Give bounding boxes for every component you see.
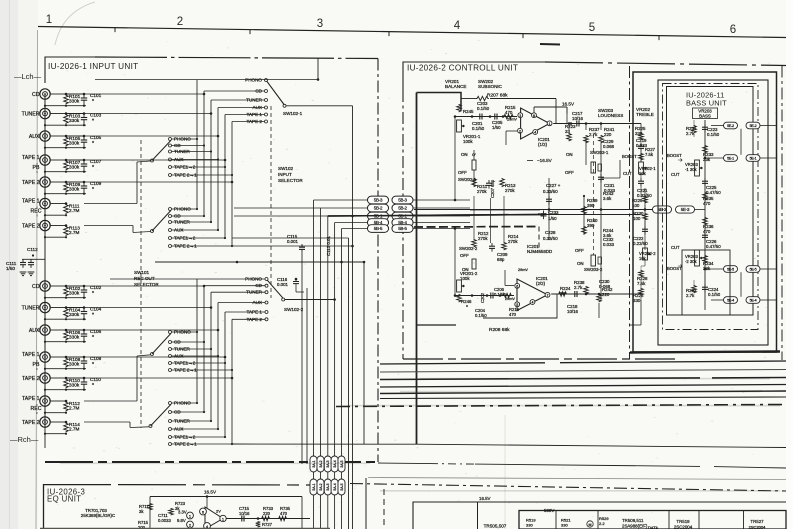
svg-text:SELECTOR: SELECTOR bbox=[278, 178, 303, 183]
svg-text:68p: 68p bbox=[497, 257, 505, 262]
svg-text:5E-2: 5E-2 bbox=[750, 124, 757, 128]
ruler tick bbox=[249, 30, 251, 35]
wire TAPE1 REC jack to SW101-1 bbox=[84, 203, 137, 205]
svg-text:0.001: 0.001 bbox=[287, 239, 299, 244]
svg-text:R207 68k: R207 68k bbox=[487, 93, 508, 99]
wire upper opamp minus input bbox=[506, 130, 517, 132]
svg-text:IU-2026-2 CONTROLL UNIT: IU-2026-2 CONTROLL UNIT bbox=[407, 64, 518, 73]
wire R226 bottom to bus bbox=[640, 300, 642, 325]
stray dark dash top right bbox=[540, 43, 560, 46]
wire 5B-2 bus bbox=[470, 209, 540, 211]
svg-text:0.1/50: 0.1/50 bbox=[708, 292, 721, 297]
svg-text:BASS: BASS bbox=[699, 113, 711, 118]
svg-text:5A-5: 5A-5 bbox=[340, 483, 344, 490]
svg-text:SW203-2: SW203-2 bbox=[584, 267, 603, 272]
ground return line bbox=[45, 147, 86, 149]
table divider 4 bbox=[698, 511, 700, 529]
svg-text:330: 330 bbox=[633, 298, 641, 303]
wire SW203-2 column bbox=[600, 303, 602, 318]
wire 5B-4 into controll unit bbox=[414, 222, 471, 224]
switch SW101-4 blade bbox=[151, 405, 171, 427]
svg-text:DATA: DATA bbox=[648, 525, 658, 529]
ground return line bbox=[45, 105, 86, 107]
resistor R105 330k bbox=[64, 137, 69, 147]
wire C227 column bbox=[548, 178, 550, 240]
svg-text:CUT: CUT bbox=[671, 245, 680, 250]
svg-text:BOOST: BOOST bbox=[667, 266, 682, 271]
transistor TR701 circle bbox=[187, 512, 194, 519]
wire SW101-4 AUX row bbox=[172, 428, 219, 430]
svg-text:TUNER: TUNER bbox=[22, 306, 40, 312]
connector 5B-5 input side bbox=[368, 225, 389, 233]
wire TAPE2 REC jack to SW101-2 bbox=[84, 225, 133, 227]
svg-text:*: * bbox=[92, 141, 94, 147]
svg-text:2.7M: 2.7M bbox=[69, 208, 80, 213]
svg-text:5: 5 bbox=[516, 303, 518, 307]
connector stack row 2 bbox=[310, 479, 317, 495]
svg-text:TR509,511: TR509,511 bbox=[622, 518, 644, 523]
resistor R113 2.7M bbox=[64, 226, 69, 236]
bass outer box bottom dark edge bbox=[630, 352, 780, 353]
svg-text:5A-4: 5A-4 bbox=[333, 483, 337, 490]
wire SW101-3 TAPE1→2 row bbox=[172, 362, 226, 364]
svg-text:2.7M: 2.7M bbox=[69, 230, 80, 235]
svg-text:PHONO: PHONO bbox=[245, 78, 262, 83]
svg-text:TAPE 1: TAPE 1 bbox=[22, 396, 40, 402]
wire R242 top bbox=[598, 303, 600, 318]
svg-text:5A-1: 5A-1 bbox=[312, 483, 316, 490]
resistor R108 330k bbox=[64, 358, 69, 368]
svg-text:330k: 330k bbox=[69, 164, 80, 169]
ruler line bbox=[38, 27, 786, 38]
svg-text:NJM4558DD: NJM4558DD bbox=[527, 249, 552, 254]
svg-text:ON: ON bbox=[566, 152, 573, 157]
svg-text:3.3V: 3.3V bbox=[178, 510, 187, 515]
svg-text:C233: C233 bbox=[548, 210, 559, 215]
ground return line bbox=[45, 297, 86, 299]
switch mechanical link SW102 bbox=[270, 106, 272, 298]
svg-text:BOOST: BOOST bbox=[622, 154, 637, 159]
svg-text:10k: 10k bbox=[639, 256, 647, 261]
wire R211 column bbox=[473, 196, 475, 239]
wire from jack TAPE 2 bbox=[50, 421, 66, 423]
svg-text:C227 +: C227 + bbox=[546, 183, 561, 188]
wire vertical source bus R2 bbox=[203, 286, 205, 412]
svg-text:*: * bbox=[538, 213, 540, 219]
svg-text:29mV: 29mV bbox=[518, 268, 528, 272]
svg-text:100: 100 bbox=[633, 216, 641, 221]
resistor R213 270k bbox=[500, 178, 505, 187]
wire vertical source bus L1 bbox=[196, 80, 198, 209]
wire SW101-2 TAPE 2→1 row bbox=[172, 245, 233, 247]
svg-text:ON: ON bbox=[577, 261, 584, 266]
svg-text:330k: 330k bbox=[69, 186, 80, 191]
svg-text:5B-5: 5B-5 bbox=[398, 226, 407, 231]
resistor R107 330k bbox=[64, 161, 69, 171]
wire vertical source bus R1 bbox=[196, 279, 198, 403]
bus line 6 bbox=[380, 397, 786, 399]
svg-text:9.8V: 9.8V bbox=[177, 518, 186, 523]
svg-text:5A-2: 5A-2 bbox=[319, 483, 323, 490]
toner noise along bus lines bbox=[420, 378, 770, 380]
svg-text:C228: C228 bbox=[545, 230, 556, 235]
wire 5E-1 row bbox=[705, 157, 724, 159]
wire SW101-4 TUNER row bbox=[172, 420, 212, 422]
svg-text:29mV: 29mV bbox=[505, 297, 515, 301]
wire TAPE2 jack to selector bbox=[84, 181, 232, 183]
wire 5B-1 into controll unit bbox=[414, 215, 471, 217]
wire vertical source bus L2 bbox=[203, 91, 205, 216]
wire SW101-2 AUX row bbox=[172, 229, 219, 231]
wire SW101-3 AUX row bbox=[172, 355, 219, 357]
svg-text:R208 68k: R208 68k bbox=[489, 327, 510, 333]
connector stack row 1 bbox=[310, 456, 317, 472]
page left margin fold line bbox=[9, 0, 11, 529]
svg-text:10/16: 10/16 bbox=[567, 309, 579, 314]
svg-text:CD: CD bbox=[32, 92, 40, 98]
page border line left bbox=[36, 30, 38, 529]
capacitor C104 bbox=[83, 308, 85, 312]
connector 5B-4 controll side bbox=[392, 219, 413, 227]
wire vertical source bus R3 bbox=[210, 292, 212, 421]
wire from jack TAPE 1 bbox=[50, 159, 66, 161]
svg-text:1/50: 1/50 bbox=[6, 266, 15, 271]
svg-text:2.7k: 2.7k bbox=[686, 293, 695, 298]
wire from jack TAPE 2 bbox=[50, 225, 66, 227]
wire boost-cut upper bbox=[619, 160, 621, 178]
wire loudness bbox=[568, 124, 570, 131]
svg-text:CD: CD bbox=[32, 284, 40, 290]
resistor R110 330k bbox=[64, 379, 69, 389]
connector 5B-4 input side bbox=[368, 219, 389, 227]
wire stage input vertical upper bbox=[454, 117, 456, 201]
wire SW101-3 PHONO row bbox=[172, 331, 198, 333]
svg-text:0.068: 0.068 bbox=[603, 144, 615, 149]
wire AUX jack to selector bbox=[84, 135, 218, 137]
svg-text:330k: 330k bbox=[69, 312, 80, 317]
wire lower tone bus bbox=[414, 222, 455, 224]
resistor R104 330k bbox=[64, 308, 69, 318]
potentiometer VR201-1 bbox=[457, 120, 462, 132]
bass box 2 bbox=[658, 80, 768, 345]
bass inner box bbox=[667, 87, 754, 316]
wire to cap C104 bbox=[66, 307, 84, 309]
switch SW101-2 contacts bbox=[169, 208, 172, 211]
svg-text:TUNER: TUNER bbox=[22, 112, 40, 118]
svg-text:—Rch—: —Rch— bbox=[10, 435, 39, 444]
wire SW101-4 PHONO row bbox=[172, 402, 198, 404]
wire TAPE2 REC jack R to SW101-4 bbox=[84, 421, 130, 423]
svg-text:2.2: 2.2 bbox=[599, 521, 605, 526]
bass inner lower box bbox=[682, 250, 730, 315]
svg-text:*: * bbox=[92, 383, 94, 389]
bass chain vertical bbox=[704, 120, 706, 310]
svg-text:1: 1 bbox=[46, 14, 52, 26]
capacitor C103 bbox=[83, 114, 85, 118]
svg-text:8: 8 bbox=[533, 114, 535, 118]
svg-text:270k: 270k bbox=[478, 236, 488, 241]
wire AUX jack R to selector bbox=[84, 329, 218, 331]
svg-text:5E-3: 5E-3 bbox=[681, 207, 690, 212]
switch SW102-1 contacts bbox=[265, 79, 268, 82]
capacitor C105 bbox=[83, 136, 85, 140]
svg-text:0.001: 0.001 bbox=[277, 282, 289, 287]
svg-text:C202: C202 bbox=[480, 292, 485, 303]
svg-text:5B-3: 5B-3 bbox=[398, 198, 407, 203]
svg-text:R246: R246 bbox=[461, 299, 472, 304]
svg-text:0.1/50: 0.1/50 bbox=[707, 132, 720, 137]
wire treble chain continuous bbox=[644, 188, 646, 250]
resistor R114 2.7M bbox=[64, 423, 69, 433]
svg-text:0.1/50: 0.1/50 bbox=[475, 313, 487, 318]
power box divider bbox=[477, 502, 479, 529]
svg-text:REC: REC bbox=[31, 406, 42, 412]
wire loudness column R239 R240 bbox=[583, 196, 585, 235]
wire to cap C108 bbox=[66, 356, 84, 358]
connector 5E-5 right bbox=[746, 266, 760, 273]
oval stack wires lower bbox=[313, 481, 315, 529]
svg-text:270k: 270k bbox=[505, 188, 515, 193]
wire SW101-2 CD row bbox=[172, 215, 205, 217]
wire SW101-4 TAPE1→2 row bbox=[172, 436, 226, 438]
wire to connector 5B-2 bbox=[234, 207, 367, 209]
svg-text:3: 3 bbox=[317, 18, 323, 30]
wire TAPE1 REC jack R to SW101-3 bbox=[84, 400, 137, 402]
svg-text:6: 6 bbox=[516, 285, 518, 289]
svg-text:0.47/50: 0.47/50 bbox=[706, 190, 721, 195]
treble chain wire bbox=[640, 124, 642, 134]
wire rec monitor row y262 bbox=[155, 261, 342, 263]
wire Lch bottom stub bbox=[44, 428, 46, 448]
capacitor C227 symbol bbox=[548, 196, 550, 199]
svg-text:33: 33 bbox=[565, 129, 570, 134]
svg-text:5E-2: 5E-2 bbox=[727, 124, 734, 128]
bus line 3 bbox=[380, 378, 700, 380]
ruler tick bbox=[388, 32, 390, 36]
wire SW101-2 PHONO row bbox=[172, 208, 198, 210]
svg-text:(2/2): (2/2) bbox=[536, 281, 546, 286]
svg-text:2.7M: 2.7M bbox=[69, 426, 80, 431]
wire to cap C107 bbox=[66, 159, 84, 161]
svg-text:2SC2004: 2SC2004 bbox=[674, 525, 693, 529]
svg-text:7: 7 bbox=[547, 294, 549, 298]
ground return line bbox=[45, 193, 86, 195]
svg-text:330k: 330k bbox=[69, 140, 80, 145]
wire 5E-2 to 5E-1 link bbox=[740, 129, 742, 155]
table divider 3 bbox=[668, 511, 670, 529]
switch SW101-2 blade bbox=[152, 211, 171, 232]
wire SW101-1 CD row bbox=[172, 145, 205, 147]
table divider 1 bbox=[555, 511, 557, 529]
svg-text:16.5V: 16.5V bbox=[204, 490, 217, 495]
wire TAPE1 jack R to selector bbox=[84, 356, 225, 358]
svg-text:AUX: AUX bbox=[29, 328, 40, 334]
capacitor C110 bbox=[83, 378, 85, 382]
vertical wire x417 lower bbox=[416, 443, 418, 445]
wire to 5E-3 bbox=[644, 205, 646, 210]
resistor R111 2.7M bbox=[64, 204, 69, 214]
capacitor C106 bbox=[83, 330, 85, 334]
svg-text:TR519: TR519 bbox=[676, 519, 690, 524]
IU-2026-2 CONTROLL UNIT box bbox=[403, 62, 545, 90]
svg-text:ON: ON bbox=[461, 152, 468, 157]
connector 5E-2 left bbox=[724, 122, 738, 129]
svg-text:—Lch—: —Lch— bbox=[14, 72, 42, 81]
table divider 5 bbox=[743, 511, 745, 529]
wire SW101-4 TAPE 2→1 row bbox=[172, 443, 233, 445]
ground return line bbox=[45, 412, 66, 414]
wire from jack CD bbox=[50, 285, 66, 287]
wire SW101-3 TUNER row bbox=[172, 348, 212, 350]
svg-text:TAPE 1: TAPE 1 bbox=[22, 155, 40, 161]
wire SW101-1 TUNER row bbox=[172, 151, 212, 153]
wire loudness column R243 R244 C231 bbox=[600, 143, 602, 300]
svg-text:330k: 330k bbox=[69, 290, 80, 295]
table divider 2 bbox=[597, 511, 599, 529]
wire from jack TAPE 1 bbox=[50, 203, 66, 205]
wire SW102-2 output bbox=[285, 299, 335, 301]
svg-text:5E-1: 5E-1 bbox=[727, 157, 734, 161]
dash-dot wire y482-491 bbox=[350, 484, 786, 492]
svg-text:SW101: SW101 bbox=[134, 270, 150, 275]
svg-text:REC: REC bbox=[31, 209, 42, 215]
potentiometer VR202-2 bbox=[643, 248, 648, 260]
resistor R211 270k bbox=[472, 178, 477, 187]
wire 5E-4 to box edge bbox=[760, 299, 776, 301]
svg-text:0.33/50: 0.33/50 bbox=[543, 236, 558, 241]
svg-text:5B-2: 5B-2 bbox=[398, 206, 407, 211]
wire to cap C110 bbox=[66, 377, 84, 379]
svg-text:5E-5: 5E-5 bbox=[727, 268, 734, 272]
svg-text:3: 3 bbox=[519, 114, 521, 118]
svg-text:OFF: OFF bbox=[565, 170, 574, 175]
svg-text:330k: 330k bbox=[69, 334, 80, 339]
wire CD jack R to selector bbox=[84, 285, 204, 287]
svg-text:PB: PB bbox=[33, 165, 40, 171]
connector 5E-4 right bbox=[746, 297, 760, 304]
faint wire y476 bbox=[368, 478, 786, 480]
svg-text:BASS UNIT: BASS UNIT bbox=[686, 99, 727, 108]
wire SW101-1 TAPE 2→1 row bbox=[172, 174, 233, 176]
ground rail bbox=[22, 258, 45, 260]
svg-text:*: * bbox=[92, 119, 94, 125]
power area dashed vertical bbox=[383, 489, 385, 529]
resistor R101 330k bbox=[64, 95, 69, 105]
svg-text:TAPE 2: TAPE 2 bbox=[22, 224, 40, 230]
IU-2026-1 INPUT UNIT box bbox=[45, 57, 95, 83]
connector 5E-3 left bbox=[653, 206, 672, 213]
connector 5B-1 controll side bbox=[392, 212, 413, 220]
wire to cap C101 bbox=[66, 93, 84, 95]
svg-text:TAPE 2: TAPE 2 bbox=[22, 420, 40, 426]
svg-text:C207 68p: C207 68p bbox=[490, 179, 495, 198]
op-amp IC201 2/2 bbox=[517, 279, 548, 311]
svg-text:2: 2 bbox=[519, 129, 521, 133]
wire to cap C109 bbox=[66, 181, 84, 183]
ground return line bbox=[45, 368, 86, 370]
wire phono row L bbox=[95, 79, 318, 81]
wire output drop to lower stage bbox=[640, 123, 642, 125]
svg-text:SW203-1: SW203-1 bbox=[590, 150, 609, 155]
svg-text:SW102-1: SW102-1 bbox=[283, 111, 303, 116]
svg-text:R727: R727 bbox=[262, 522, 273, 527]
switch mechanical link SW101 bbox=[140, 140, 142, 428]
svg-text:2SC2004: 2SC2004 bbox=[749, 525, 766, 529]
resistor R103 330k bbox=[64, 114, 69, 124]
feedback loop lower bbox=[483, 294, 557, 318]
svg-text:10/16: 10/16 bbox=[239, 511, 250, 516]
svg-text:5A-3: 5A-3 bbox=[326, 483, 330, 490]
connector 5B ovals overlay bbox=[368, 196, 389, 204]
svg-text:2.7k: 2.7k bbox=[574, 285, 583, 290]
svg-text:330k: 330k bbox=[69, 382, 80, 387]
svg-text:SUBSONIC: SUBSONIC bbox=[478, 84, 503, 89]
ground return line bbox=[45, 171, 86, 173]
wire from jack TAPE 1 bbox=[50, 356, 66, 358]
svg-text:270k: 270k bbox=[508, 239, 518, 244]
op-amp output wire upper bbox=[553, 123, 641, 125]
svg-text:16.5V: 16.5V bbox=[479, 496, 491, 501]
svg-text:330k: 330k bbox=[69, 361, 80, 366]
svg-text:470: 470 bbox=[509, 312, 517, 317]
bass dash-dot box bbox=[663, 84, 759, 330]
wire from jack AUX bbox=[50, 329, 66, 331]
capacitor C109 bbox=[83, 182, 85, 186]
bass outer box bbox=[633, 72, 777, 352]
wire SW101-1 PHONO row bbox=[172, 138, 198, 140]
connector 5B-1 input side bbox=[368, 212, 389, 220]
svg-text:TR527: TR527 bbox=[750, 519, 764, 524]
paper curl arc top left bbox=[55, 2, 95, 45]
svg-text:−16.5V: −16.5V bbox=[537, 158, 553, 163]
connector 5E-1 left bbox=[724, 155, 738, 162]
wire from jack TUNER bbox=[50, 113, 66, 115]
wire 5E-1 to box edge bbox=[760, 157, 776, 159]
wire 5B-1 dark bus overlay bbox=[328, 215, 544, 217]
capacitor C101 bbox=[83, 94, 85, 98]
wire 5E-5 to 5E-4 link bbox=[740, 272, 742, 296]
svg-text:INPUT: INPUT bbox=[278, 172, 292, 177]
wire stage input vertical lower bbox=[454, 229, 456, 296]
wire 5E-2 row bbox=[711, 125, 724, 127]
svg-text:4: 4 bbox=[454, 20, 461, 32]
wire 5B-5 heavy dashed bus bbox=[414, 226, 539, 229]
svg-text:TR505,507: TR505,507 bbox=[484, 524, 507, 529]
svg-text:3.6k: 3.6k bbox=[603, 196, 612, 201]
svg-text:R245: R245 bbox=[463, 109, 474, 114]
svg-text:5E-5: 5E-5 bbox=[750, 268, 757, 272]
wire from jack AUX bbox=[50, 135, 66, 137]
svg-text:330: 330 bbox=[526, 523, 533, 528]
wire vertical source bus R4 bbox=[217, 303, 219, 430]
capacitor C108 bbox=[83, 357, 85, 361]
svg-text:*: * bbox=[92, 291, 94, 297]
wire EQ op-amp supply bbox=[206, 497, 208, 509]
wire vertical source bus L5 bbox=[224, 115, 226, 239]
connector 5B-2 controll side bbox=[392, 204, 413, 212]
svg-text:*: * bbox=[92, 165, 94, 171]
wire 5B-3 into controll unit bbox=[414, 199, 471, 201]
capacitor C102 bbox=[83, 286, 85, 290]
capacitor C107 bbox=[83, 160, 85, 164]
power box bbox=[413, 502, 786, 529]
svg-text:AUX: AUX bbox=[29, 134, 40, 140]
svg-text:CUT: CUT bbox=[623, 171, 632, 176]
svg-text:TAPE 1: TAPE 1 bbox=[22, 352, 40, 358]
wire to connector 5B-3 bbox=[314, 199, 368, 201]
switch SW101-1 contacts bbox=[169, 138, 172, 141]
wire phono stub to top border bbox=[317, 59, 319, 80]
